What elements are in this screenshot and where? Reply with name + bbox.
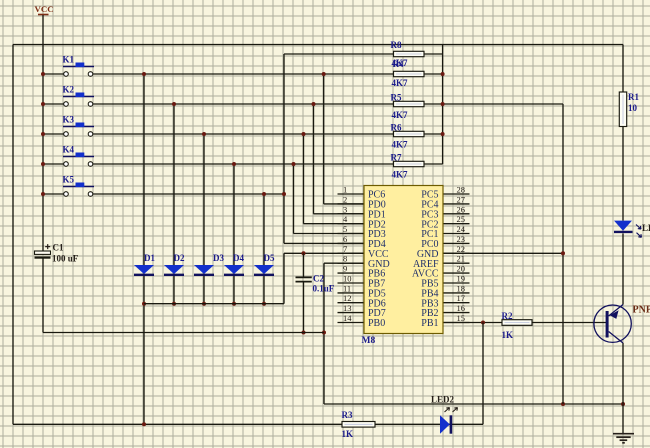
wire top VCC rail	[13, 44, 623, 46]
svg-text:1: 1	[343, 185, 347, 195]
ground symbol	[613, 434, 634, 443]
wire R5 right to bus and GND drop	[424, 103, 563, 105]
svg-text:8: 8	[343, 254, 347, 264]
wire K5 row down to D5	[263, 194, 265, 265]
wire bottom rail through R3 and LED2	[13, 423, 483, 425]
junction VCC stem / K1	[41, 72, 45, 76]
svg-text:D4: D4	[233, 253, 244, 263]
svg-text:10: 10	[343, 274, 352, 284]
wire U1 pin 8 stub	[338, 262, 365, 264]
wire R2 to Q1 base	[532, 322, 606, 324]
svg-text:2: 2	[343, 194, 347, 204]
svg-text:19: 19	[457, 274, 466, 284]
junction VCC stem / K3	[41, 132, 45, 136]
wire U1 pin 9 stub	[338, 272, 365, 274]
wire K1 row down to D1	[143, 74, 145, 265]
resistor R1	[619, 92, 626, 127]
wire U1 pin 12 stub	[338, 302, 365, 304]
svg-text:23: 23	[457, 234, 466, 244]
svg-text:R4: R4	[393, 59, 404, 69]
junction D3 / cathode line	[202, 302, 206, 306]
svg-text:1K: 1K	[502, 330, 514, 340]
svg-text:PNP: PNP	[633, 305, 650, 316]
svg-text:6: 6	[343, 234, 347, 244]
svg-text:C2: C2	[313, 274, 324, 284]
junction row K5 / bus	[282, 192, 286, 196]
junction C2 bottom / gnd line	[302, 331, 306, 335]
junction VCC stem / K5	[41, 192, 45, 196]
junction row K4 / D4 column	[232, 162, 236, 166]
LED D6 LED1	[614, 221, 642, 238]
wire R8 left row	[284, 53, 394, 55]
svg-text:D3: D3	[213, 253, 224, 263]
junction row K4 / bus	[292, 162, 296, 166]
svg-text:7: 7	[343, 244, 347, 254]
junction resistor bus	[441, 132, 445, 136]
junction D5 / cathode line	[262, 302, 266, 306]
svg-text:R1: R1	[628, 92, 639, 102]
diode D5	[254, 265, 274, 275]
junction resistor bus	[441, 102, 445, 106]
wire K4 left terminal	[43, 163, 64, 165]
diode D3	[194, 265, 214, 275]
wire resistor network right bus	[442, 45, 444, 165]
svg-text:4K7: 4K7	[392, 170, 409, 180]
svg-text:12: 12	[343, 293, 352, 303]
svg-text:25: 25	[457, 214, 466, 224]
svg-text:24: 24	[457, 224, 466, 234]
LED D7 LED2	[440, 408, 458, 434]
junction pin15 / LED2 drop	[481, 321, 485, 325]
junction VCC stem / K2	[41, 102, 45, 106]
wire D4 cathode down	[233, 276, 235, 304]
svg-text:R6: R6	[391, 123, 402, 133]
switch K4	[63, 153, 94, 167]
svg-text:K2: K2	[63, 85, 75, 95]
svg-text:R2: R2	[502, 311, 513, 321]
capacitor C1 polarized	[35, 244, 51, 258]
svg-text:22: 22	[457, 244, 466, 254]
wire U1 pin 24 stub	[443, 233, 470, 235]
svg-text:K4: K4	[63, 145, 75, 155]
wire R7 right to bus	[424, 163, 443, 165]
wire GND vertical	[323, 263, 325, 404]
svg-text:20: 20	[457, 264, 466, 274]
svg-text:R8: R8	[391, 40, 402, 50]
wire U1 pin 19 stub	[443, 282, 470, 284]
switch K1	[63, 63, 94, 77]
svg-text:4K7: 4K7	[392, 140, 409, 150]
svg-text:16: 16	[457, 303, 466, 313]
wire U1 pin 23 stub	[443, 242, 470, 244]
wire K2 row to resistor	[93, 103, 394, 105]
junction resistor bus	[441, 72, 445, 76]
wire R6 right to bus	[424, 133, 443, 135]
wire U1 pin 1 stub	[338, 193, 365, 195]
wire C1 negative line	[43, 332, 324, 334]
wire LED1 to Q1 emitter	[622, 234, 624, 305]
wire R8 right to bus	[424, 53, 443, 55]
wire bus K2 net vertical	[313, 104, 315, 214]
wire bus K4 net vertical	[293, 164, 295, 234]
switch K2	[63, 93, 94, 107]
svg-text:K1: K1	[63, 55, 75, 65]
svg-text:M8: M8	[362, 336, 376, 346]
wire rail down to R1	[622, 45, 624, 93]
junction D2 / cathode line	[172, 302, 176, 306]
svg-text:LED2: LED2	[431, 395, 455, 405]
junction D1 column / bottom rail	[142, 422, 146, 426]
svg-text:13: 13	[343, 303, 352, 313]
wire U1 pin 2 stub	[338, 203, 365, 205]
wire C1 bottom lead down	[42, 259, 44, 333]
wire C2 bottom lead	[303, 282, 305, 332]
wire left rail	[12, 45, 14, 425]
wire K5 left terminal	[43, 193, 64, 195]
junction GND vertical / C1 line	[322, 331, 326, 335]
svg-text:R5: R5	[391, 93, 402, 103]
wire to U1 pin 2	[324, 203, 364, 205]
resistor R4	[394, 71, 425, 76]
diode D4	[224, 265, 244, 275]
power symbol VCC	[35, 4, 54, 15]
wire K3 row down to D3	[203, 134, 205, 265]
wire U1 pin 27 stub	[443, 203, 470, 205]
junction GND line / Q1 collector	[621, 402, 625, 406]
wire bus K3 net vertical	[303, 134, 305, 224]
svg-text:5: 5	[343, 224, 347, 234]
svg-text:D5: D5	[264, 253, 275, 263]
wire U1 pin 3 stub	[338, 213, 365, 215]
junction row K2 / D2 column	[172, 102, 176, 106]
wire K3 left terminal	[43, 133, 64, 135]
wire D5 cathode down	[263, 276, 265, 304]
diode D2	[164, 265, 184, 275]
svg-text:LED1: LED1	[642, 223, 650, 233]
wire U1 pin 28 stub	[443, 193, 470, 195]
junction row K3 / D3 column	[202, 132, 206, 136]
wire R4 right to bus	[424, 73, 443, 75]
wire U1 pin 8 GND	[324, 262, 364, 264]
resistor R5	[394, 101, 425, 106]
wire K2 left terminal	[43, 103, 64, 105]
wire U1 pin 21 stub	[443, 262, 470, 264]
svg-text:15: 15	[457, 313, 466, 323]
wire U1 pin 22 GND	[443, 252, 563, 254]
wire U1 pin 14 stub	[338, 322, 365, 324]
svg-text:4K7: 4K7	[392, 78, 409, 88]
junction VCC stem / K4	[41, 162, 45, 166]
wire U1 pin 16 stub	[443, 312, 470, 314]
junction row K1 / bus	[322, 72, 326, 76]
wire D3 cathode down	[203, 276, 205, 304]
wire Q1 collector to ground	[622, 343, 624, 434]
diode D1	[134, 265, 154, 275]
resistor R8	[394, 51, 425, 56]
wire bus K5 net vertical	[283, 54, 285, 243]
wire U1 pin 7 stub	[338, 252, 365, 254]
switch K3	[63, 123, 94, 137]
wire U1 pin 7 VCC line	[284, 252, 364, 254]
wire U1 pin 25 stub	[443, 223, 470, 225]
wire U1 pin 5 stub	[338, 233, 365, 235]
wire VCC stem from VCC symbol down to C1	[42, 15, 44, 251]
resistor R2	[502, 320, 532, 326]
wire D2 cathode down	[173, 276, 175, 304]
junction row K1 / D1 column	[142, 72, 146, 76]
svg-text:PB1: PB1	[421, 318, 438, 329]
wire K4 row down to D4	[233, 164, 235, 265]
wire bottom GND line	[324, 403, 623, 405]
svg-text:0.1uF: 0.1uF	[313, 284, 335, 294]
junction row K2 / bus	[312, 102, 316, 106]
svg-text:17: 17	[457, 293, 466, 303]
wire pin15 net down to bottom rail	[482, 323, 484, 425]
svg-text:K3: K3	[63, 115, 75, 125]
svg-text:4K7: 4K7	[392, 110, 409, 120]
svg-text:11: 11	[343, 283, 351, 293]
svg-text:100 uF: 100 uF	[52, 254, 79, 264]
capacitor C2	[296, 277, 312, 281]
svg-text:D2: D2	[174, 253, 185, 263]
wire U1 pin 13 stub	[338, 312, 365, 314]
svg-text:1K: 1K	[342, 429, 354, 439]
wire to U1 pin 5	[294, 233, 365, 235]
svg-text:K5: K5	[63, 175, 75, 185]
svg-text:21: 21	[457, 254, 466, 264]
svg-text:26: 26	[457, 204, 466, 214]
wire U1 pin 26 stub	[443, 213, 470, 215]
wire K1 row to resistor	[93, 73, 394, 75]
wire U1 pin 4 stub	[338, 223, 365, 225]
junction C2 top / pin7 line	[302, 251, 306, 255]
wire to U1 pin 3	[314, 213, 365, 215]
svg-text:3: 3	[343, 204, 347, 214]
svg-text:R7: R7	[391, 153, 402, 163]
wire node down from pin7 line	[283, 253, 285, 303]
wire U1 pin 17 stub	[443, 302, 470, 304]
transistor Q1 PNP	[594, 305, 631, 344]
svg-text:14: 14	[343, 313, 352, 323]
wire K4 row to resistor	[93, 163, 394, 165]
junction D4 / cathode line	[232, 302, 236, 306]
wire D1 cathode down	[143, 276, 145, 425]
wire K1 left terminal	[43, 73, 64, 75]
svg-text:VCC: VCC	[35, 4, 54, 14]
wire C2 top lead	[303, 253, 305, 276]
wire K5 row to node	[93, 193, 284, 195]
wire diode cathode line	[144, 303, 284, 305]
junction GND line / pin22 drop	[561, 402, 565, 406]
svg-text:28: 28	[457, 185, 466, 195]
wire U1 pin 22 stub	[443, 252, 470, 254]
junction pin22 / vertical	[561, 251, 565, 255]
switch K5	[63, 183, 94, 197]
wire to U1 pin 4	[304, 223, 365, 225]
resistor R3	[342, 422, 375, 428]
svg-text:27: 27	[457, 194, 466, 204]
wire R1 to LED1	[622, 127, 624, 221]
wire K2 row down to D2	[173, 104, 175, 265]
svg-text:10: 10	[628, 103, 638, 113]
wire U1 pin 15 stub	[443, 322, 470, 324]
op-amp U1 IC body M8 ATmega8	[364, 186, 443, 334]
wire U1 pin 6 stub	[338, 242, 365, 244]
svg-text:D1: D1	[144, 253, 155, 263]
svg-text:18: 18	[457, 283, 466, 293]
resistor R7	[394, 161, 425, 166]
svg-text:C1: C1	[53, 243, 64, 253]
svg-text:R3: R3	[342, 410, 353, 420]
wire U1 pin 10 stub	[338, 282, 365, 284]
wire U1 pin 15 to R2	[443, 322, 502, 324]
wire U1 pin 11 stub	[338, 292, 365, 294]
wire to U1 pin 6	[284, 242, 364, 244]
wire bus K1 net vertical	[323, 74, 325, 204]
svg-text:PB0: PB0	[368, 318, 385, 329]
wire K3 row to resistor	[93, 133, 394, 135]
wire U1 pin 18 stub	[443, 292, 470, 294]
resistor R6	[394, 131, 425, 136]
junction D1 / cathode line	[142, 302, 146, 306]
wire pin22 GND vertical	[562, 104, 564, 404]
junction row K5 / D5 column	[262, 192, 266, 196]
svg-text:9: 9	[343, 264, 347, 274]
wire U1 pin 20 stub	[443, 272, 470, 274]
junction row K3 / bus	[302, 132, 306, 136]
